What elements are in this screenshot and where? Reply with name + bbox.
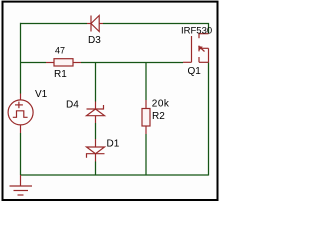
zener diode D1: [87, 139, 105, 162]
svg-text:Q1: Q1: [188, 66, 202, 77]
wire R2 to bottom rail: [145, 134, 147, 175]
svg-text:R1: R1: [54, 69, 67, 80]
wire top rail right to drain: [103, 24, 209, 34]
wire gate rail from left vertical to R1: [21, 62, 47, 64]
svg-text:20k: 20k: [152, 99, 170, 110]
svg-text:47: 47: [55, 46, 65, 56]
MOSFET Q1 (IRF530): [183, 34, 209, 63]
wire D1 to bottom rail: [95, 162, 97, 176]
svg-text:R2: R2: [152, 111, 165, 122]
diode D3: [87, 16, 103, 32]
svg-text:D4: D4: [66, 100, 79, 111]
wire left vertical (top rail to V1): [20, 23, 22, 94]
wire zener branch top (gate rail to D4): [95, 63, 97, 102]
wire bottom rail: [21, 174, 209, 176]
svg-text:D3: D3: [88, 35, 101, 46]
ground: [10, 175, 33, 195]
wire Q1 source to bottom rail: [208, 62, 210, 175]
wire top rail left: [21, 23, 88, 25]
voltage source V1: [8, 94, 33, 134]
zener diode D4: [87, 102, 105, 124]
wire V1 to bottom rail: [20, 133, 22, 175]
wire R2 branch top (gate rail to R2): [145, 63, 147, 101]
svg-text:D1: D1: [107, 139, 120, 150]
wire gate rail from R1 to Q1 gate: [81, 62, 183, 64]
svg-text:V1: V1: [35, 89, 48, 100]
resistor R2: [142, 100, 150, 134]
svg-text:IRF530: IRF530: [181, 26, 212, 37]
wire between D4 and D1: [95, 123, 97, 139]
resistor R1: [46, 59, 81, 66]
